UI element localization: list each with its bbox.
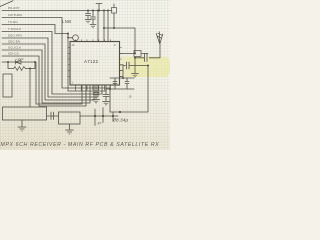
- U1 pin ticks bottom: [76, 85, 111, 91]
- component X1 top: [112, 8, 117, 14]
- diode D1: [2, 61, 35, 63]
- svg-text:A7122: A7122: [84, 59, 98, 64]
- svg-text:PD-RXT: PD-RXT: [8, 6, 20, 10]
- capacitor C2: [91, 11, 96, 25]
- wire to ground stub: [134, 58, 136, 73]
- inductor L1: [120, 52, 135, 54]
- capacitor C6: [113, 78, 117, 89]
- U1 pin ticks top: [76, 40, 111, 42]
- capacitor C3 antenna: [135, 54, 147, 62]
- capacitor C7: [125, 78, 129, 89]
- svg-text:MPX 6CH RECEIVER - MAIN RF PCB: MPX 6CH RECEIVER - MAIN RF PCB & SATELLI…: [1, 142, 160, 148]
- wire stub R47: [95, 108, 113, 126]
- ground right: [132, 74, 139, 77]
- wire SDI bus drop: [36, 62, 82, 104]
- page corner mark: [0, 1, 13, 7]
- wire SDC-ATN: [2, 38, 98, 97]
- crystal X2 module: [59, 112, 81, 124]
- svg-text:15: 15: [129, 95, 133, 99]
- wire lower rail 1: [110, 77, 134, 79]
- ground C2: [90, 25, 96, 28]
- ground C9: [93, 100, 100, 103]
- antenna ANT1: [156, 32, 163, 44]
- U1 pin ticks left: [68, 48, 70, 77]
- paper background: [0, 0, 170, 150]
- ground C8: [103, 102, 110, 105]
- wire TX-EN: [2, 25, 106, 92]
- wire 3V3 to regulator: [29, 69, 31, 108]
- svg-text:SDC-ATN: SDC-ATN: [8, 34, 22, 38]
- IC U1 A7122: [70, 42, 120, 86]
- wire rail to U1 pin 3: [107, 11, 109, 42]
- svg-text:SDC-EN: SDC-EN: [8, 40, 20, 44]
- capacitor C4: [123, 62, 148, 69]
- connector J1: [3, 74, 12, 97]
- wire lower rail 2: [106, 89, 134, 112]
- ground U2: [18, 127, 26, 131]
- wire X2 ground stub: [69, 124, 71, 130]
- junction dots D1/R1: [7, 61, 36, 70]
- wire X2 out: [80, 115, 118, 117]
- wire rail to U1 pin: [97, 11, 99, 42]
- junction dots top rail: [87, 10, 109, 12]
- junction RF node: [134, 52, 136, 58]
- ground C1: [85, 20, 91, 23]
- ground X2: [66, 130, 74, 134]
- svg-text:CD/THRU: CD/THRU: [8, 13, 22, 17]
- wire PD-RXT / top supply rail: [2, 10, 112, 12]
- svg-text:LNB: LNB: [62, 19, 71, 24]
- wire T-DI-CLK: [2, 32, 102, 95]
- wire X1 stub: [113, 4, 115, 8]
- capacitor C10: [51, 112, 54, 120]
- resistor R1: [8, 62, 35, 69]
- wire SDI-CS: [2, 56, 86, 106]
- wire X1 to RF node: [104, 13, 135, 53]
- capacitor C8: [103, 89, 109, 101]
- transistor Q1: [73, 35, 79, 41]
- svg-text:SCL/CLK: SCL/CLK: [8, 46, 21, 50]
- capacitor C1: [86, 11, 91, 20]
- wire antenna down: [149, 44, 160, 58]
- svg-text:T-DI/CLK: T-DI/CLK: [8, 27, 21, 31]
- wire U1 right stubs: [120, 65, 124, 78]
- wire U2 ground stub: [21, 120, 23, 127]
- wire U2 to X2: [47, 115, 59, 117]
- wire ground loop right: [110, 66, 148, 113]
- junction dots bottom wire: [94, 115, 114, 117]
- svg-text:Ø8.34μ: Ø8.34μ: [112, 118, 129, 123]
- wire CD-THRU: [2, 18, 110, 89]
- svg-text:SDI-CS: SDI-CS: [8, 52, 19, 56]
- regulator U2: [3, 107, 47, 120]
- wire rail to U1 pin 2: [103, 11, 105, 42]
- Vcc symbol: [96, 4, 102, 11]
- svg-text:47: 47: [98, 122, 102, 126]
- wire SCL-CLK: [2, 50, 90, 103]
- U1 pin ticks right: [120, 48, 122, 77]
- capacitor C9 under U1: [93, 85, 99, 99]
- wire SDC-EN: [2, 44, 94, 100]
- svg-text:TX-EN: TX-EN: [8, 20, 18, 24]
- yellow highlighter band: [116, 57, 170, 77]
